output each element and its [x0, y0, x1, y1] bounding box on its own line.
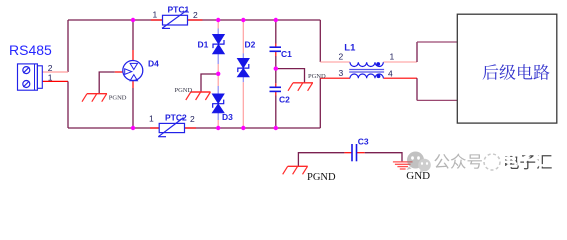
wire: L1 pin 1 lead	[383, 61, 417, 63]
wire: C1/C2 junction to PGND	[276, 69, 305, 83]
wire: L1 pin 2 lead	[320, 61, 350, 63]
label PGND (at C3)	[307, 172, 336, 183]
junction node: bottom rail at D2	[241, 126, 245, 130]
label C3	[358, 137, 369, 147]
wire: bottom-right vertical up to L1 pin 3	[319, 78, 321, 128]
watermark: dashed circle logo	[484, 154, 500, 170]
label PGND (at D1/D3 junction)	[175, 87, 193, 94]
label GND	[406, 170, 430, 182]
wire: vertical up from L1 pin 1	[416, 42, 418, 62]
svg-text:1: 1	[390, 52, 395, 62]
pin 1 number (PTC1)	[153, 10, 158, 20]
watermark: WeChat logo	[407, 152, 431, 173]
svg-text:PGND: PGND	[109, 95, 127, 102]
ground PGND (at D1/D3 junction)	[186, 92, 211, 100]
pin 2 number (PTC1)	[193, 10, 198, 20]
connector J1 (RS485 terminal block)	[18, 64, 43, 90]
wire: D1/D3 junction to PGND	[201, 74, 218, 92]
capacitor C3	[352, 144, 357, 161]
wire: bottom rail	[68, 127, 320, 129]
svg-text:PGND: PGND	[308, 73, 326, 80]
svg-text:D3: D3	[222, 112, 233, 122]
capacitor C1	[270, 47, 282, 51]
capacitor C2	[270, 87, 282, 91]
svg-text:D4: D4	[148, 59, 159, 69]
junction node: top rail at D1	[216, 18, 220, 22]
pin 2 number (PTC2)	[190, 114, 195, 124]
wire: top-right vertical down to L1 pin 2	[319, 20, 321, 62]
svg-text:2: 2	[190, 114, 195, 124]
label D4	[148, 59, 159, 69]
junction node: C1/C2 midpoint	[274, 66, 278, 70]
junction node: bottom rail at C2	[274, 126, 278, 130]
wire: C3 net from PGND to GND	[298, 153, 402, 167]
wire: D2 top lead	[242, 20, 244, 58]
diode D2 (bidirectional TVS)	[237, 58, 249, 77]
pin 4 number (L1)	[388, 69, 393, 79]
pin 2 number (L1)	[339, 52, 344, 62]
wire: connector pin 1 horizontal	[42, 80, 68, 82]
resistor PTC1 (thermistor)	[151, 10, 203, 28]
ground PGND (at C3)	[283, 166, 308, 174]
svg-text:PTC2: PTC2	[165, 113, 187, 123]
svg-text:2: 2	[193, 10, 198, 20]
svg-text:1: 1	[48, 72, 53, 82]
wire: D4 bottom lead	[132, 80, 134, 128]
label C1	[281, 49, 292, 59]
wire: D1 bottom to junction	[217, 54, 219, 94]
label L1	[344, 43, 356, 54]
pin 1 number (L1)	[390, 52, 395, 62]
ground GND (earth)	[393, 162, 413, 169]
resistor PTC2 (thermistor)	[150, 118, 196, 137]
wire: C1 bottom to junction	[275, 51, 277, 68]
svg-text:GND: GND	[406, 170, 430, 182]
wire: L1 pin 3 lead	[320, 77, 350, 79]
svg-text:PTC1: PTC1	[168, 5, 190, 15]
pin 1 number (connector)	[48, 72, 53, 82]
label PGND (at D4)	[109, 95, 127, 102]
svg-text:RS485: RS485	[9, 42, 52, 58]
svg-text:D1: D1	[198, 40, 209, 50]
svg-text:C2: C2	[279, 95, 290, 105]
wire: D4 top lead	[132, 20, 134, 61]
wire: D3 bottom lead	[217, 113, 219, 128]
watermark: text 电子汇	[503, 152, 552, 170]
svg-text:D2: D2	[245, 40, 256, 50]
wire: horizontal into box bottom	[417, 99, 457, 101]
svg-text:C1: C1	[281, 49, 292, 59]
label PTC2	[165, 113, 187, 123]
label RS485	[9, 42, 52, 58]
svg-text:L1: L1	[344, 43, 356, 54]
junction node: D1/D3 midpoint	[216, 72, 220, 76]
ground PGND (at C1/C2 junction)	[288, 83, 313, 91]
inductor L1 (common mode choke)	[349, 62, 384, 78]
label D3	[222, 112, 233, 122]
label D1	[198, 40, 209, 50]
svg-text:C3: C3	[358, 137, 369, 147]
svg-text:1: 1	[149, 114, 154, 124]
svg-text:PGND: PGND	[307, 172, 336, 183]
label C2	[279, 95, 290, 105]
wire: L1 pin 4 lead	[383, 77, 417, 79]
svg-text:4: 4	[388, 69, 393, 79]
svg-text:2: 2	[339, 52, 344, 62]
wire: left vertical from pin 1 down to bottom rail	[67, 81, 69, 128]
wire: left vertical from pin 2 up to top rail	[67, 20, 69, 72]
label D2	[245, 40, 256, 50]
diode D1 (bidirectional TVS)	[212, 34, 224, 54]
wire: C1 top lead	[275, 20, 277, 47]
pin 3 number (L1)	[339, 68, 344, 78]
surge arrester D4 (3-electrode gas discharge tube)	[123, 61, 143, 81]
wire: D1 top lead	[217, 20, 219, 34]
watermark: text 公众号	[434, 154, 482, 169]
label PTC1	[168, 5, 190, 15]
junction node: top rail at D2	[241, 18, 245, 22]
wire: horizontal into box top	[417, 41, 457, 43]
wire: connector pin 2 horizontal	[42, 71, 68, 73]
pin 1 number (PTC2)	[149, 114, 154, 124]
junction node: bottom rail at D4	[131, 126, 135, 130]
wire: D4 left lead to PGND	[99, 72, 123, 94]
junction node: top rail at D4	[131, 18, 135, 22]
block: downstream circuit box	[457, 14, 557, 123]
wire: D2 bottom lead	[242, 77, 244, 128]
svg-text:PGND: PGND	[175, 87, 193, 94]
wire: C2 bottom lead	[275, 91, 277, 128]
diode D3 (bidirectional TVS)	[212, 94, 224, 113]
svg-text:1: 1	[153, 10, 158, 20]
junction node: top rail at C1	[274, 18, 278, 22]
wire: vertical down from L1 pin 4	[416, 78, 418, 100]
wire: junction to C2 top	[275, 69, 277, 88]
junction node: bottom rail at D3	[216, 126, 220, 130]
svg-text:3: 3	[339, 68, 344, 78]
wire: top rail	[68, 19, 320, 21]
label PGND (at C1/C2 junction)	[308, 73, 326, 80]
pin 2 number (connector)	[48, 63, 53, 73]
ground PGND (at D4)	[82, 94, 107, 102]
